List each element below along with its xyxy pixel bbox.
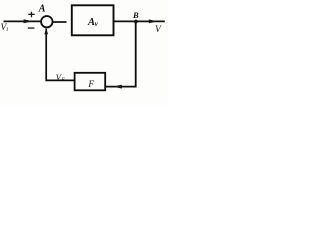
- wire summing junction to amplifier block: [53, 21, 67, 23]
- wire amplifier to output: [114, 20, 165, 22]
- arrowhead into feedback block: [113, 85, 121, 89]
- wire node B down: [135, 22, 137, 88]
- arrowhead up into summing junction: [44, 29, 48, 35]
- arrowhead output: [149, 19, 158, 23]
- wire input Vi to summing junction: [4, 20, 42, 22]
- svg-text:B: B: [132, 10, 139, 20]
- amplifier block Av: [72, 5, 114, 35]
- feedback block F: [75, 73, 106, 91]
- svg-text:F: F: [87, 79, 94, 89]
- label minus: [28, 27, 35, 28]
- summing junction A: [41, 16, 52, 27]
- wire feedback up to summing junction: [45, 29, 47, 82]
- svg-text:A: A: [38, 4, 46, 15]
- wire feedback right horizontal: [105, 86, 137, 88]
- background: [0, 0, 168, 105]
- node B junction dot: [134, 20, 138, 24]
- svg-text:F: F: [60, 77, 65, 83]
- wire feedback left horizontal: [46, 79, 75, 81]
- arrowhead input: [24, 19, 33, 23]
- label plus: [28, 14, 35, 15]
